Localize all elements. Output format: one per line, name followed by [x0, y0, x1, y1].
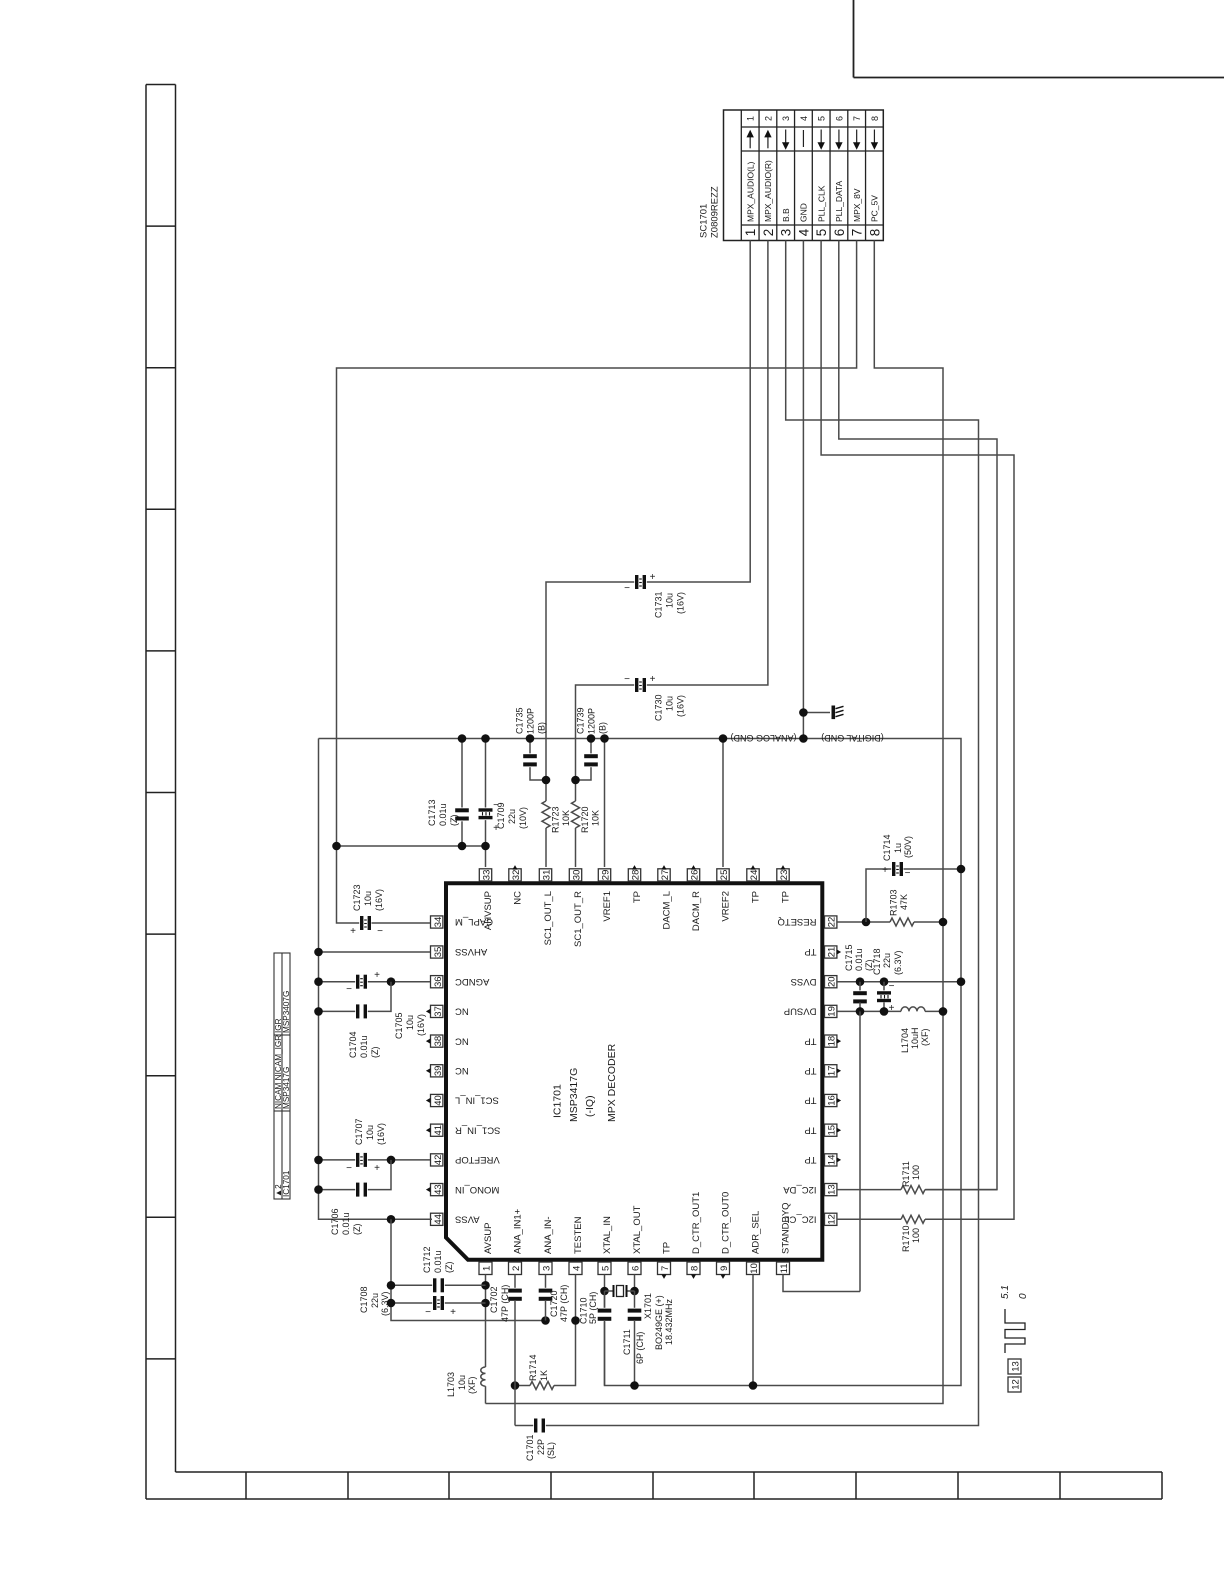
IC pin 36 AGNDC (left)	[431, 976, 443, 988]
IC pin 44 AVSS (left)	[431, 1213, 443, 1225]
svg-text:22u: 22u	[370, 1293, 380, 1308]
IC pin 32 NC (top)	[509, 869, 521, 881]
resistor R1710 100	[837, 1218, 901, 1220]
svg-text:(6.3V): (6.3V)	[893, 950, 903, 975]
R1710 zigzag	[901, 1215, 925, 1223]
IC pin 21 TP (right)	[825, 946, 837, 958]
svg-text:C1739: C1739	[576, 707, 586, 734]
capacitor C1710 5P CH	[597, 1308, 612, 1322]
IC pin 30 SC1_OUT_R (top)	[569, 869, 581, 881]
svg-text:D_CTR_OUT0: D_CTR_OUT0	[721, 1192, 732, 1254]
IC pin 23 TP (top)	[777, 869, 789, 881]
svg-text:−: −	[889, 981, 895, 992]
IC pin 28 TP (top)	[628, 869, 640, 881]
svg-text:GND: GND	[799, 203, 809, 222]
pin 37 unconnected stub	[426, 1009, 431, 1014]
junction C1714/digital gnd rail	[957, 865, 966, 874]
junction C1735/R1723	[542, 776, 551, 785]
svg-text:AVSS: AVSS	[455, 1214, 480, 1225]
IC pin 40 SC1_IN_L (left)	[431, 1094, 443, 1106]
svg-text:47P (CH): 47P (CH)	[500, 1285, 510, 1322]
IC pin 5 XTAL_IN (bottom)	[598, 1262, 611, 1275]
pin 41 unconnected stub	[426, 1128, 431, 1133]
junction C1739 gnd bus	[587, 734, 596, 743]
resistor R1723 zigzag	[542, 801, 550, 828]
junction C1711 gnd	[630, 1381, 639, 1390]
svg-text:+: +	[374, 1163, 380, 1174]
IC pin 24 TP (top)	[747, 869, 759, 881]
svg-text:44: 44	[433, 1214, 444, 1225]
svg-text:C1712: C1712	[422, 1246, 432, 1273]
svg-text:23: 23	[779, 870, 790, 881]
pin 18 unconnected stub	[837, 1039, 842, 1044]
junction C1712/pin1	[481, 1281, 490, 1290]
junction rail pin35	[314, 948, 323, 957]
junction C1715 bottom/standby net	[856, 1007, 865, 1016]
svg-text:B.B: B.B	[781, 208, 791, 222]
pin 40 unconnected stub	[426, 1098, 431, 1103]
svg-text:Z0809REZZ: Z0809REZZ	[710, 186, 721, 238]
wire C1723 to pin34	[372, 922, 431, 924]
svg-text:DVSUP: DVSUP	[784, 1006, 817, 1017]
capacitor C1730 10u 16V	[634, 678, 647, 693]
connector pin 4 no-direction dash	[802, 130, 804, 147]
wire C1730 net to R1720	[575, 780, 577, 801]
capacitor C1735 1200P	[523, 753, 538, 767]
svg-text:22u: 22u	[882, 953, 892, 968]
wire: AVSS rail left	[319, 739, 433, 1220]
pin 21 unconnected stub	[837, 949, 842, 954]
svg-text:XTAL_OUT: XTAL_OUT	[632, 1205, 643, 1254]
pin 23 unconnected stub	[780, 865, 785, 870]
svg-text:R1711: R1711	[901, 1161, 911, 1187]
svg-text:MPX_AUDIO(L): MPX_AUDIO(L)	[745, 161, 755, 222]
svg-text:(Z): (Z)	[370, 1047, 380, 1059]
IC pin 7 TP (bottom)	[658, 1262, 671, 1275]
connector SC1701 Z0809REZZ	[724, 110, 884, 241]
svg-text:+: +	[350, 926, 356, 937]
svg-text:(XF): (XF)	[467, 1377, 477, 1395]
IC pin 11 STANDBYQ (bottom)	[777, 1262, 790, 1275]
chassis ground symbol	[832, 706, 836, 720]
svg-text:14: 14	[827, 1155, 838, 1166]
junction C1739/R1720	[571, 776, 580, 785]
capacitor C1704 0.01u	[355, 1004, 368, 1019]
svg-text:34: 34	[433, 917, 444, 928]
IC pin 25 VREF2 (top)	[717, 869, 729, 881]
svg-text:TP: TP	[804, 1154, 816, 1165]
svg-text:TP: TP	[781, 891, 792, 903]
resistor R1714 zigzag	[530, 1382, 554, 1390]
svg-text:1200P: 1200P	[526, 708, 536, 734]
svg-text:D_CTR_OUT1: D_CTR_OUT1	[691, 1192, 702, 1254]
wire: connector pin5 PLL_CLK down right down to R1710	[821, 241, 1014, 1220]
svg-text:(16V): (16V)	[676, 592, 686, 614]
svg-text:5: 5	[600, 1266, 611, 1271]
svg-text:C1730: C1730	[654, 694, 664, 721]
svg-text:(B): (B)	[537, 722, 547, 734]
svg-text:17: 17	[827, 1066, 838, 1077]
junction C1713 bottom	[458, 842, 467, 851]
svg-text:100: 100	[911, 1228, 921, 1243]
svg-text:10u: 10u	[665, 593, 675, 608]
svg-text:12: 12	[827, 1214, 838, 1225]
wire C1731 net to R1723	[545, 780, 547, 801]
svg-text:−: −	[377, 926, 383, 937]
connector pin 8 direction arrow (in)	[873, 130, 875, 143]
svg-text:SC1_IN_R: SC1_IN_R	[455, 1124, 501, 1135]
svg-text:C1714: C1714	[882, 834, 892, 861]
svg-text:R1703: R1703	[889, 889, 899, 916]
IC pin 42 VREFTOP (left)	[431, 1154, 443, 1166]
capacitor C1731 10u 16V	[634, 575, 647, 590]
svg-text:15: 15	[827, 1125, 838, 1136]
svg-text:SC1_OUT_R: SC1_OUT_R	[573, 891, 584, 947]
svg-text:0.01u: 0.01u	[341, 1212, 351, 1235]
svg-text:(10V): (10V)	[518, 807, 528, 829]
pin 26 unconnected stub	[691, 865, 696, 870]
junction C1709 bottom pin33	[481, 842, 490, 851]
wire: pin2 ANA_IN1+ vertical	[514, 1275, 516, 1290]
junction C1735 gnd bus	[526, 734, 535, 743]
wire: pin6 XTAL_OUT vertical	[634, 1275, 636, 1292]
svg-text:R1714: R1714	[528, 1354, 538, 1381]
IC pin 8 D_CTR_OUT1 (bottom)	[687, 1262, 700, 1275]
junction C1708/pin1	[481, 1299, 490, 1308]
svg-text:35: 35	[433, 947, 444, 958]
wire: pin19 DVSUP row	[837, 1010, 901, 1012]
pin 7 unconnected stub	[661, 1274, 666, 1279]
svg-text:0.01u: 0.01u	[359, 1035, 369, 1058]
IC pin 14 TP (right)	[825, 1154, 837, 1166]
wire: C1712 row	[391, 1284, 433, 1286]
junction C1712 left	[387, 1281, 396, 1290]
IC pin 9 D_CTR_OUT0 (bottom)	[717, 1262, 730, 1275]
IC pin 19 DVSUP (right)	[825, 1005, 837, 1017]
C1718 plates	[877, 990, 892, 1003]
IC pin 16 TP (right)	[825, 1094, 837, 1106]
wire: AHVSS pin35 to rail	[319, 951, 431, 953]
wire: C1704 row	[319, 1010, 357, 1012]
junction C1713 gnd bus	[458, 734, 467, 743]
top-right adjacent sheet corner	[853, 0, 855, 78]
svg-text:C1706: C1706	[330, 1208, 340, 1235]
svg-text:MSP3417G: MSP3417G	[282, 1067, 291, 1109]
wire: standby vertical	[859, 1011, 861, 1291]
svg-text:L1703: L1703	[446, 1372, 456, 1397]
svg-text:6P (CH): 6P (CH)	[635, 1332, 645, 1364]
svg-text:VREFTOP: VREFTOP	[455, 1154, 500, 1165]
wire: connector pin4 GND down to ground line	[802, 241, 804, 739]
svg-text:PLL_CLK: PLL_CLK	[816, 185, 826, 222]
svg-text:C1701: C1701	[525, 1434, 535, 1461]
svg-text:ANA_IN1+: ANA_IN1+	[513, 1208, 524, 1254]
pin 17 unconnected stub	[837, 1068, 842, 1073]
svg-text:C1715: C1715	[844, 944, 854, 971]
svg-text:+: +	[882, 865, 888, 876]
junction C1718 bottom	[880, 1007, 889, 1016]
svg-text:−: −	[905, 868, 911, 879]
IC pin 15 TP (right)	[825, 1124, 837, 1136]
svg-text:2: 2	[511, 1266, 522, 1271]
svg-text:TP: TP	[804, 946, 816, 957]
waveform pulse symbol	[1005, 1309, 1025, 1353]
svg-text:1: 1	[481, 1266, 492, 1271]
wire: pin1 AVSUP vertical	[485, 1275, 487, 1368]
svg-text:C1718: C1718	[872, 948, 882, 975]
IC pin 26 DACM_R (top)	[687, 869, 699, 881]
wire: pin11 STANDBYQ	[783, 1275, 860, 1292]
connector pin 2 direction arrow (out)	[767, 136, 769, 148]
svg-text:(-IQ): (-IQ)	[584, 1095, 596, 1117]
svg-text:30: 30	[571, 870, 582, 881]
svg-text:(DIGITAL GND): (DIGITAL GND)	[821, 733, 884, 743]
svg-text:TP: TP	[632, 891, 643, 903]
svg-text:38: 38	[433, 1036, 444, 1047]
svg-text:MPX_8V: MPX_8V	[852, 188, 862, 222]
wire: C1707 row	[319, 1159, 357, 1161]
svg-text:47P (CH): 47P (CH)	[559, 1285, 569, 1322]
svg-text:+: +	[889, 1003, 895, 1014]
C1715 plates	[853, 990, 868, 1004]
capacitor C1705 10u 16V	[355, 974, 368, 989]
svg-text:(16V): (16V)	[376, 1123, 386, 1145]
capacitor C1712 0.01u	[432, 1278, 445, 1293]
capacitor C1701 22P SL	[533, 1418, 546, 1433]
pin 39 unconnected stub	[426, 1068, 431, 1073]
svg-text:BO249GE (+): BO249GE (+)	[654, 1295, 664, 1350]
svg-text:42: 42	[433, 1155, 444, 1166]
junction DVSS gnd rail	[957, 977, 966, 986]
svg-text:6: 6	[832, 229, 847, 237]
wire R1720 to pin30	[575, 828, 577, 867]
svg-text:19: 19	[827, 1006, 838, 1017]
junction C1708 left	[387, 1299, 396, 1308]
svg-text:4: 4	[571, 1266, 582, 1271]
svg-text:TP: TP	[804, 1065, 816, 1076]
IC pin 27 DACM_L (top)	[658, 869, 670, 881]
junction C1707/C1706/pin42	[387, 1156, 396, 1165]
svg-text:6: 6	[630, 1266, 641, 1271]
junction C1718 top	[880, 977, 889, 986]
capacitor C1711 6P CH	[627, 1308, 642, 1322]
svg-text:13: 13	[827, 1184, 838, 1195]
IC pin 4 TESTEN (bottom)	[569, 1262, 582, 1275]
junction 8V rail/AHVSUP feed	[332, 842, 341, 851]
svg-text:(SL): (SL)	[546, 1442, 556, 1459]
svg-text:1: 1	[743, 229, 758, 237]
junction crystal right	[630, 1287, 639, 1296]
junction TESTEN row	[571, 1316, 580, 1325]
svg-text:16: 16	[827, 1095, 838, 1106]
svg-text:MPX DECODER: MPX DECODER	[606, 1043, 618, 1122]
capacitor C1709 22u 10V	[478, 808, 493, 821]
svg-text:STANDBYQ: STANDBYQ	[781, 1202, 792, 1254]
IC pin 10 ADR_SEL (bottom)	[747, 1262, 760, 1275]
junction pin4/chassis gnd	[799, 708, 808, 717]
svg-text:22: 22	[827, 917, 838, 928]
svg-text:(ANALOG GND): (ANALOG GND)	[730, 733, 796, 743]
capacitor C1707 10u 16V	[355, 1152, 368, 1167]
junction L1704/PC5V rail	[939, 1007, 948, 1016]
IC pin 33 AHVSUP (top)	[479, 869, 491, 881]
wire: VREF1 pin29 to gnd bus	[604, 739, 606, 868]
page zone column left	[145, 85, 147, 1500]
svg-text:1u: 1u	[893, 843, 903, 853]
junction rail C1706	[314, 1185, 323, 1194]
svg-text:43: 43	[433, 1184, 444, 1195]
svg-text:18: 18	[827, 1036, 838, 1047]
inductor L1703 10u XF	[481, 1367, 486, 1386]
svg-text:37: 37	[433, 1006, 444, 1017]
svg-text:12: 12	[1010, 1379, 1021, 1390]
wire: ground stub to chassis ground	[803, 712, 830, 714]
pin 28 unconnected stub	[632, 865, 637, 870]
pin 15 unconnected stub	[837, 1128, 842, 1133]
wire R1714 left	[515, 1385, 530, 1387]
svg-text:25: 25	[719, 870, 730, 881]
NICAM version label table	[274, 953, 290, 1199]
pin 27 unconnected stub	[661, 865, 666, 870]
wire: AHVSUP feed horizontal	[337, 845, 486, 847]
svg-text:−: −	[624, 583, 630, 594]
svg-text:20: 20	[827, 976, 838, 987]
svg-text:33: 33	[481, 870, 492, 881]
svg-text:SC1_OUT_L: SC1_OUT_L	[543, 891, 554, 945]
svg-text:TP: TP	[804, 1035, 816, 1046]
junction C1715 top	[856, 977, 865, 986]
svg-text:0.01u: 0.01u	[854, 948, 864, 971]
pin 16 unconnected stub	[837, 1098, 842, 1103]
svg-text:21: 21	[827, 947, 838, 958]
capacitor C1739 1200P	[584, 753, 599, 767]
capacitor C1714 1u 50V	[891, 862, 904, 877]
junction pin44/AVSS aux	[387, 1215, 396, 1224]
IC pin 2 ANA_IN1+ (bottom)	[509, 1262, 522, 1275]
svg-text:2: 2	[761, 229, 776, 237]
svg-text:DVSS: DVSS	[791, 976, 817, 987]
svg-text:I2C_CL: I2C_CL	[784, 1214, 816, 1225]
connector pin 1 direction arrow (out)	[749, 136, 751, 148]
capacitor C1702 47P CH	[508, 1288, 523, 1302]
pin 14 unconnected stub	[837, 1157, 842, 1162]
wire: AVSS aux vertical to bottom caps	[391, 1219, 546, 1320]
wire: C1706 row	[319, 1189, 357, 1191]
IC pin 43 MONO_IN (left)	[431, 1184, 443, 1196]
wire: pin3 ANA_IN- vertical	[545, 1275, 547, 1290]
junction C1720 bottom	[541, 1316, 550, 1325]
crystal X1701	[605, 1290, 614, 1292]
svg-text:I2C_DA: I2C_DA	[783, 1184, 817, 1195]
svg-text:C1705: C1705	[394, 1012, 404, 1039]
pin 32 unconnected stub	[512, 865, 517, 870]
svg-text:+: +	[374, 970, 380, 981]
wire: connector pin8 PC_5V down right down to bottom then left to L1703	[486, 241, 944, 1404]
svg-text:(XF): (XF)	[920, 1029, 930, 1047]
svg-text:NC: NC	[455, 1065, 469, 1076]
svg-text:C1707: C1707	[354, 1118, 364, 1145]
pin ref box 13	[1008, 1359, 1021, 1374]
svg-text:10K: 10K	[561, 810, 571, 826]
IC pin 6 XTAL_OUT (bottom)	[628, 1262, 641, 1275]
svg-text:5.1: 5.1	[1000, 1285, 1011, 1299]
svg-text:(16V): (16V)	[676, 695, 686, 717]
IC pin 22 RESETQ (right)	[825, 916, 837, 928]
svg-text:1200P: 1200P	[587, 708, 597, 734]
svg-text:8: 8	[867, 229, 882, 237]
junction C1709 gnd bus	[481, 734, 490, 743]
svg-text:(50V): (50V)	[903, 836, 913, 858]
svg-text:C1720: C1720	[549, 1290, 559, 1317]
svg-text:VREF2: VREF2	[721, 891, 732, 922]
svg-text:C1723: C1723	[352, 884, 362, 911]
wire: pin20 DVSS row	[837, 981, 961, 983]
svg-text:47K: 47K	[899, 894, 909, 910]
svg-text:L1704: L1704	[900, 1028, 910, 1053]
connector pin 5 direction arrow (in)	[820, 130, 822, 143]
wire: connector pin2 MPX_AUDIO(R) to C1730 to IC pin30	[576, 241, 768, 781]
svg-text:31: 31	[541, 870, 552, 881]
svg-text:3: 3	[541, 1266, 552, 1271]
pin 24 unconnected stub	[750, 865, 755, 870]
svg-text:0.01u: 0.01u	[438, 803, 448, 826]
svg-text:10u: 10u	[405, 1015, 415, 1030]
connector pin 7 direction arrow (in)	[856, 130, 858, 143]
svg-text:TP: TP	[804, 1124, 816, 1135]
svg-text:10u: 10u	[365, 1125, 375, 1140]
svg-text:7: 7	[850, 229, 865, 237]
svg-text:ADR_SEL: ADR_SEL	[751, 1211, 762, 1254]
capacitor C1708 22u 6.3V	[432, 1296, 445, 1311]
wire: pin22 RESETQ row	[837, 921, 890, 923]
svg-text:C1702: C1702	[489, 1286, 499, 1313]
wire: connector pin7 MPX_8V down then left to x336 rail	[337, 241, 857, 924]
svg-text:+: +	[650, 674, 656, 685]
IC pin 29 VREF1 (top)	[598, 869, 610, 881]
IC pin 34 CAPL_M (left)	[431, 916, 443, 928]
svg-text:AHVSS: AHVSS	[455, 946, 487, 957]
svg-text:6: 6	[834, 116, 844, 121]
junction R1703/PC5V rail	[939, 918, 948, 927]
svg-text:RESETQ: RESETQ	[777, 916, 816, 927]
svg-text:IC1701: IC1701	[552, 1084, 564, 1118]
pin 38 unconnected stub	[426, 1039, 431, 1044]
svg-text:TESTEN: TESTEN	[573, 1216, 584, 1254]
svg-text:DACM_L: DACM_L	[662, 891, 673, 930]
svg-text:(Z): (Z)	[444, 1262, 454, 1274]
op IC1701 MSP3417G MPX decoder body	[446, 883, 822, 1260]
R1711 zigzag	[901, 1186, 925, 1194]
svg-text:NC: NC	[455, 1006, 469, 1017]
svg-text:SC1_IN_L: SC1_IN_L	[455, 1095, 499, 1106]
svg-text:5P (CH): 5P (CH)	[588, 1292, 598, 1324]
svg-text:PC_5V: PC_5V	[870, 195, 880, 222]
wire: C1714 branch	[866, 869, 892, 922]
IC pin 18 TP (right)	[825, 1035, 837, 1047]
svg-text:−: −	[425, 1307, 431, 1318]
wire: C1735 branch	[529, 739, 531, 756]
svg-text:−: −	[346, 1163, 352, 1174]
svg-text:32: 32	[511, 870, 522, 881]
svg-text:100: 100	[911, 1165, 921, 1180]
svg-text:MSP3407G: MSP3407G	[282, 991, 291, 1033]
svg-text:22P: 22P	[536, 1439, 546, 1455]
svg-text:36: 36	[433, 976, 444, 987]
svg-text:(Z): (Z)	[352, 1224, 362, 1236]
svg-text:C1704: C1704	[348, 1031, 358, 1058]
capacitor C1723 10u 16V	[359, 916, 372, 931]
svg-text:NC: NC	[513, 891, 524, 905]
